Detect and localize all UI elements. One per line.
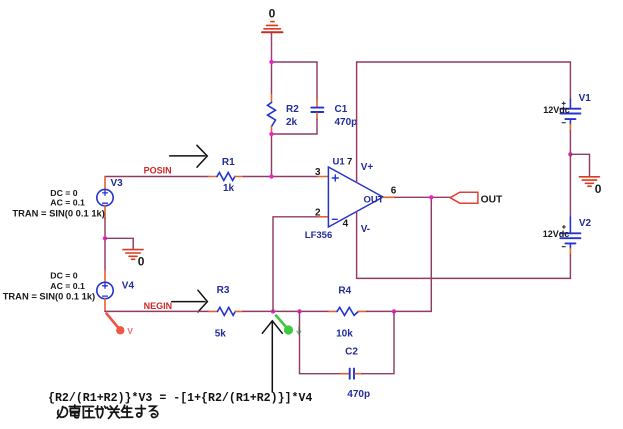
resistor R3: [209, 307, 243, 315]
svg-text:C2: C2: [345, 346, 358, 357]
capacitor C1: [311, 100, 323, 120]
svg-text:12Vdc: 12Vdc: [543, 229, 570, 239]
battery V2: [560, 217, 580, 255]
wire pin2 branch: [273, 217, 318, 312]
ground 0 right: [579, 177, 599, 186]
svg-text:1k: 1k: [223, 183, 235, 194]
resistor R4: [329, 307, 367, 315]
probe V red: [107, 314, 134, 337]
svg-text:POSIN: POSIN: [144, 166, 172, 176]
svg-text:DC = 0: DC = 0: [50, 270, 77, 280]
svg-text:AC = 0.1: AC = 0.1: [50, 281, 85, 291]
svg-text:OUT: OUT: [481, 195, 503, 206]
arrow up to node: [262, 321, 282, 392]
svg-text:4: 4: [343, 219, 349, 230]
pin 2 stub: [318, 216, 328, 218]
svg-text:V2: V2: [579, 218, 592, 229]
ground 0 top: [262, 22, 283, 33]
svg-text:R4: R4: [338, 286, 351, 297]
voltage source V3: [97, 177, 113, 219]
svg-text:V: V: [127, 326, 133, 336]
wire out to port: [395, 196, 450, 198]
wire V+ supply: [356, 62, 358, 183]
wire R4 to out vertical: [367, 197, 432, 311]
wire ground stem to node: [271, 33, 273, 62]
ground 0 mid: [123, 250, 143, 260]
wire bottom rail: [357, 277, 571, 279]
node V3V4 mid: [103, 236, 107, 240]
wire C2 right up: [362, 311, 394, 373]
svg-text:R1: R1: [222, 157, 235, 168]
node C2 left junction: [297, 309, 301, 313]
svg-text:0: 0: [269, 7, 276, 21]
svg-text:0: 0: [595, 182, 602, 196]
node C2 right junction: [392, 309, 396, 313]
svg-text:5k: 5k: [215, 328, 227, 339]
wire V3 bottom to V4 top: [104, 218, 106, 270]
svg-text:V3: V3: [111, 178, 124, 189]
svg-text:NEGIN: NEGIN: [144, 301, 173, 311]
svg-text:2k: 2k: [286, 117, 298, 128]
node negin pin2 junction: [271, 309, 275, 313]
resistor R1: [209, 173, 244, 181]
wire V- supply: [356, 212, 358, 279]
voltage source V4: [97, 270, 113, 311]
svg-text:{R2/(R1+R2)}*V3 = -[1+{R2/(R1+: {R2/(R1+R2)}*V3 = -[1+{R2/(R1+R2)}]*V4: [48, 392, 312, 405]
svg-text:LF356: LF356: [305, 230, 332, 241]
svg-text:R3: R3: [217, 285, 230, 296]
svg-text:12Vdc: 12Vdc: [543, 105, 570, 115]
wire negin left: [105, 310, 209, 312]
wire C2 loop: [300, 311, 342, 373]
battery V1: [560, 99, 580, 131]
V4 params: [3, 270, 95, 301]
wire V1 to mid node: [569, 131, 571, 154]
node posin junction: [269, 174, 273, 178]
svg-text:470p: 470p: [335, 117, 358, 128]
wire C1 bottom to node: [272, 120, 318, 135]
svg-text:OUT: OUT: [364, 195, 384, 206]
capacitor C2: [341, 369, 362, 379]
svg-text:TRAN = SIN(0 0.1 1k): TRAN = SIN(0 0.1 1k): [3, 291, 95, 302]
svg-text:C1: C1: [335, 104, 348, 115]
op-amp U1 LF356: [328, 167, 383, 227]
node out junction: [429, 195, 433, 199]
wire R2C1 bottom node down to posin junction: [271, 134, 273, 177]
arrow negin: [172, 290, 208, 312]
svg-text:V4: V4: [122, 281, 135, 292]
svg-text:3: 3: [315, 167, 321, 178]
svg-text:2: 2: [315, 208, 321, 219]
wire posin left: [105, 176, 209, 178]
V3 params: [12, 188, 104, 218]
arrow posin: [170, 145, 208, 167]
svg-text:DC = 0: DC = 0: [50, 188, 77, 198]
pin 3 stub: [318, 176, 328, 178]
port OUT: [450, 192, 503, 205]
svg-text:V+: V+: [361, 162, 374, 173]
svg-text:TRAN = SIN(0 0.1 1k): TRAN = SIN(0 0.1 1k): [12, 207, 104, 218]
svg-text:6: 6: [391, 186, 397, 197]
node R2C1 top: [269, 60, 273, 64]
svg-text:V-: V-: [361, 224, 370, 235]
formula annotation line 2 kanji: [57, 405, 157, 418]
svg-text:0: 0: [138, 255, 145, 269]
wire V2 to bottom rail: [569, 255, 571, 278]
wire mid node to V2: [569, 154, 571, 217]
svg-text:10k: 10k: [336, 328, 353, 339]
wire node to C1 branch top: [272, 62, 318, 100]
svg-text:R2: R2: [286, 104, 299, 115]
svg-text:470p: 470p: [347, 389, 370, 400]
svg-text:U1: U1: [333, 157, 346, 168]
wire to ground 0 right: [570, 154, 589, 176]
wire to ground 0 mid: [105, 238, 133, 249]
node supply mid: [568, 152, 572, 156]
svg-text:AC = 0.1: AC = 0.1: [50, 198, 85, 208]
wire R3 to R4: [243, 310, 329, 312]
svg-text:7: 7: [347, 157, 352, 168]
resistor R2: [268, 95, 276, 135]
wire R1 to pin3: [244, 176, 319, 178]
wire top rail: [357, 61, 571, 63]
node R2C1 bottom: [269, 132, 273, 136]
wire right rail top: [569, 62, 571, 99]
svg-text:V1: V1: [579, 93, 592, 104]
wire node to R2 top: [271, 62, 273, 95]
pin 6 stub: [383, 196, 395, 198]
probe green: [276, 316, 301, 335]
